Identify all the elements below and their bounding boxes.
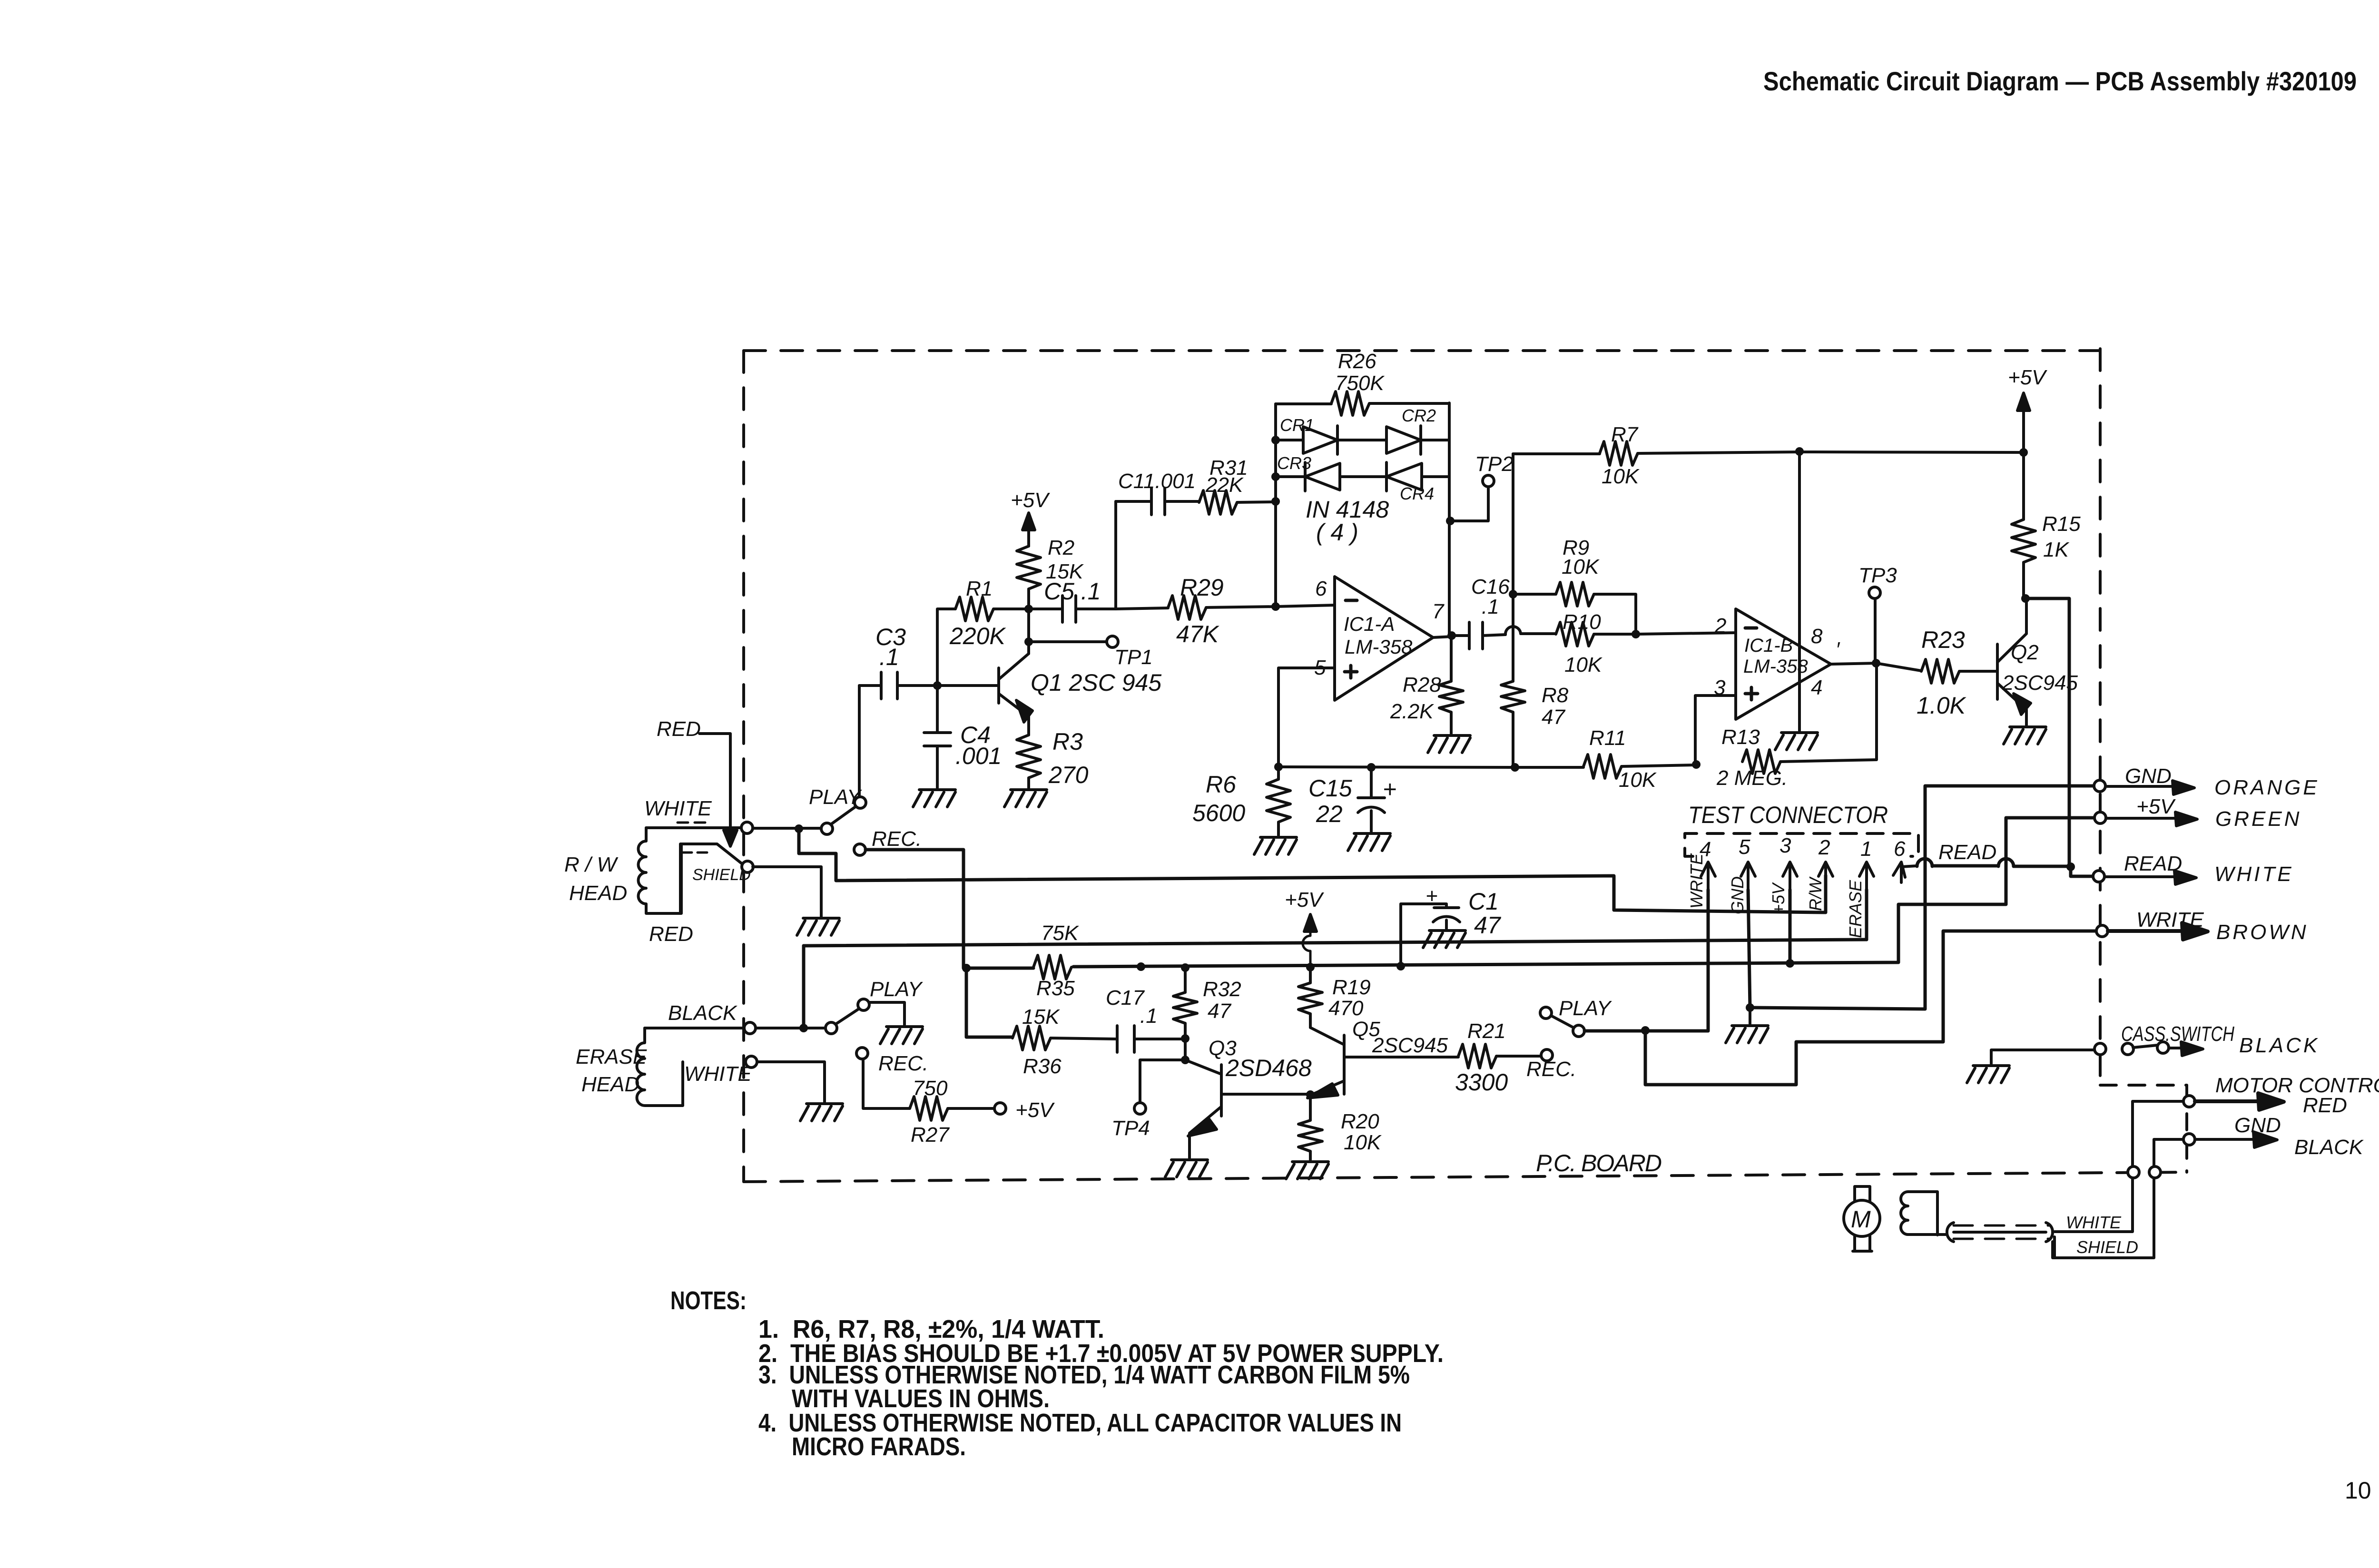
ground R28 — [1428, 735, 1470, 753]
shield label underline — [2053, 1237, 2056, 1258]
svg-text:2SC945: 2SC945 — [1372, 1034, 1448, 1057]
svg-text:NOTES:: NOTES: — [670, 1286, 747, 1315]
svg-text:WHITE: WHITE — [2066, 1213, 2122, 1232]
wire Q1 collector — [1027, 609, 1030, 654]
terminal GND output — [2094, 780, 2105, 792]
pin 4 arrow — [1701, 862, 1715, 890]
wire CR bus right vertical — [1448, 403, 1451, 636]
node R8 bottom — [1511, 763, 1519, 772]
wire TP4 branch — [1140, 1060, 1185, 1103]
svg-text:7: 7 — [1432, 600, 1445, 623]
svg-text:3: 3 — [1779, 834, 1791, 857]
node R31 out — [1271, 497, 1280, 506]
svg-text:10K: 10K — [1344, 1131, 1382, 1154]
terminal WRITE output — [2096, 925, 2108, 937]
node CR1 left — [1271, 436, 1280, 444]
svg-text:TP3: TP3 — [1858, 564, 1897, 587]
wire hop over R8 branch — [1505, 627, 1521, 635]
svg-text:47: 47 — [1208, 1000, 1231, 1023]
svg-text:R32: R32 — [1203, 978, 1241, 1001]
terminal READ output — [2093, 871, 2104, 882]
svg-text:Schematic Circuit Diagram — PC: Schematic Circuit Diagram — PCB Assembly… — [1763, 66, 2357, 96]
wire WRITE stepped to output — [1645, 931, 2095, 1085]
wire pin5 — [1278, 668, 1335, 767]
svg-text:LM-358: LM-358 — [1743, 656, 1808, 677]
wire Q2 collector — [2025, 598, 2028, 634]
motor cable shield dashes — [1954, 1225, 2049, 1239]
node pin6 — [1271, 602, 1280, 611]
wire erase REC to R27 — [863, 1059, 910, 1108]
node R2/C5 — [1024, 605, 1033, 613]
wire R7 top — [1513, 452, 1600, 455]
svg-text:2.2K: 2.2K — [1390, 700, 1434, 723]
resistor R2 15K — [1017, 546, 1041, 589]
svg-text:R8: R8 — [1542, 684, 1569, 707]
wire C5 to C11 branch — [1114, 501, 1117, 609]
svg-text:47: 47 — [1542, 706, 1565, 729]
svg-text:75K: 75K — [1041, 921, 1079, 945]
wire Q1 emitter to R3 — [1027, 716, 1030, 735]
ground test connector — [1749, 1008, 1751, 1024]
svg-text:47: 47 — [1474, 912, 1502, 939]
svg-text:2: 2 — [1714, 614, 1726, 637]
svg-text:+5V: +5V — [1285, 888, 1324, 911]
svg-text:LM-358: LM-358 — [1345, 636, 1413, 658]
ground C15 — [1348, 833, 1390, 851]
ground erase play — [880, 1027, 923, 1044]
svg-text:ERASE: ERASE — [576, 1045, 647, 1068]
shield symbol — [680, 844, 742, 913]
P.C. BOARD dashed border notch horizontal — [2100, 1084, 2187, 1087]
node pin7 — [1447, 631, 1456, 640]
svg-text:RED: RED — [649, 922, 693, 946]
svg-text:2SD468: 2SD468 — [1225, 1055, 1312, 1081]
svg-text:2SC945: 2SC945 — [2002, 671, 2078, 695]
svg-text:+5V: +5V — [2008, 366, 2047, 389]
transistor Q3 2SD468 — [1185, 1060, 1310, 1158]
svg-text:R35: R35 — [1036, 977, 1075, 1000]
svg-text:1: 1 — [1860, 837, 1872, 861]
svg-text:PLAY: PLAY — [870, 978, 923, 1001]
node R35 right — [1137, 962, 1145, 971]
wire pin1 ERASE vertical — [1865, 890, 1868, 940]
node R6 top — [1274, 763, 1283, 771]
svg-text:10K: 10K — [1602, 465, 1640, 488]
wire black lead — [645, 1027, 744, 1029]
motor inductor coil — [1901, 1192, 1908, 1235]
capacitor C4 .001 — [924, 686, 951, 788]
switch PLAY (R/W head) — [821, 823, 833, 834]
svg-text:10K: 10K — [1562, 555, 1600, 578]
svg-text:BROWN: BROWN — [2216, 921, 2309, 944]
wire white erase to ground — [757, 1062, 825, 1103]
svg-text:Q1 2SC 945: Q1 2SC 945 — [1031, 669, 1161, 696]
svg-text:TP4: TP4 — [1111, 1117, 1150, 1140]
test point TP1 — [1107, 636, 1118, 647]
P.C. BOARD dashed border bottom edge — [744, 1172, 2187, 1182]
wire Q2 emitter to ground — [2025, 710, 2028, 725]
wire R/W common to R/W test line — [799, 829, 1826, 912]
svg-text:3300: 3300 — [1455, 1069, 1508, 1096]
op-amp U1B IC1-B LM-358 — [1736, 609, 1831, 719]
terminal +5V R27 — [994, 1103, 1006, 1114]
switch PLAY (erase head) — [826, 1022, 837, 1034]
svg-text:R21: R21 — [1467, 1019, 1506, 1043]
svg-text:C11.001: C11.001 — [1118, 470, 1196, 493]
svg-text:ERASE: ERASE — [1846, 880, 1865, 938]
svg-text:.001: .001 — [955, 743, 1002, 769]
wire pin6 — [1276, 605, 1335, 607]
wire base node to Q1 — [937, 684, 999, 687]
wire pin3 — [1695, 696, 1736, 764]
svg-text:R/W: R/W — [1806, 876, 1825, 911]
motor cable white wire — [1954, 1231, 2046, 1234]
svg-text:REC.: REC. — [1526, 1058, 1576, 1081]
svg-text:RED: RED — [657, 717, 701, 741]
svg-text:1.0K: 1.0K — [1917, 692, 1967, 719]
svg-text:TP1: TP1 — [1114, 646, 1153, 669]
node pin3 +5V junction — [1786, 959, 1794, 968]
svg-text:MICRO FARADS.: MICRO FARADS. — [792, 1432, 966, 1461]
switch REC contact (R/W head) — [854, 844, 865, 855]
wire erase play to ground — [869, 1002, 904, 1026]
terminal black erase — [744, 1022, 756, 1034]
svg-text:10K: 10K — [1619, 768, 1657, 792]
switch REC contact (erase) — [856, 1048, 868, 1059]
svg-text:C17: C17 — [1106, 986, 1145, 1009]
node IC1B power — [1795, 447, 1804, 456]
svg-text:.1: .1 — [1140, 1004, 1158, 1028]
svg-text:6: 6 — [1315, 577, 1327, 600]
svg-text:750K: 750K — [1335, 372, 1385, 395]
svg-text:C15: C15 — [1308, 775, 1352, 802]
node R9 left — [1509, 590, 1517, 598]
wire motor white to motor control — [2055, 1101, 2183, 1232]
ground cass switch — [1991, 1050, 2094, 1064]
svg-text:220K: 220K — [949, 623, 1006, 649]
wire motor shield to gnd black — [2053, 1139, 2183, 1258]
svg-text:+5V: +5V — [1015, 1098, 1055, 1122]
+5V supply arrow Q1 — [1027, 519, 1030, 609]
svg-text:5: 5 — [1739, 835, 1750, 859]
svg-text:R11: R11 — [1589, 726, 1626, 750]
svg-text:P.C. BOARD: P.C. BOARD — [1536, 1150, 1662, 1176]
svg-text:+5V: +5V — [2136, 795, 2176, 818]
ground shield — [797, 918, 839, 935]
R/W head coil — [639, 828, 682, 913]
wire pin5 GND vertical — [1748, 890, 1750, 1008]
motor M — [1844, 1200, 1880, 1236]
ground R6 — [1254, 837, 1297, 854]
test connector dashed box — [1685, 833, 1918, 856]
svg-text:470: 470 — [1328, 997, 1364, 1020]
wire REC to R35 node — [865, 850, 963, 968]
wire coil top — [1908, 1192, 1937, 1235]
svg-text:PLAY: PLAY — [1559, 997, 1612, 1020]
P.C. BOARD dashed border left edge — [742, 351, 745, 1182]
svg-text:10K: 10K — [1564, 653, 1602, 676]
terminal shield — [742, 861, 753, 872]
node C15 top — [1367, 763, 1376, 772]
resistor R3 270 — [1017, 735, 1041, 778]
+5V distribution line — [966, 818, 2094, 968]
P.C. BOARD dashed border top edge — [744, 349, 2100, 352]
ground Q2 — [2004, 727, 2046, 744]
ground C4 — [913, 790, 955, 807]
svg-text:CASS.SWITCH: CASS.SWITCH — [2121, 1022, 2234, 1046]
P.C. BOARD dashed border notch vertical — [2185, 1085, 2188, 1172]
wire collector node to READ vertical — [2025, 598, 2069, 867]
svg-text:750: 750 — [913, 1077, 948, 1100]
svg-text:R28: R28 — [1403, 673, 1441, 696]
transistor Q1 2SC945 — [999, 654, 1029, 716]
svg-text:R / W: R / W — [564, 853, 618, 876]
pin 6 arrow — [1893, 862, 1905, 882]
wire pin7 to C16 — [1433, 637, 1452, 637]
svg-text:TP2: TP2 — [1475, 452, 1514, 476]
wire IC1B output — [1831, 663, 1921, 671]
node R19 top — [1306, 963, 1315, 971]
wire TP1 — [1029, 640, 1107, 643]
node R15 bottom — [2021, 594, 2030, 603]
node GND pin5 — [1746, 1003, 1754, 1012]
svg-text:22: 22 — [1316, 801, 1343, 827]
op-amp U1A IC1-A LM-358 — [1335, 577, 1433, 700]
ground Q3 emitter — [1165, 1160, 1208, 1177]
pin 2 arrow — [1819, 862, 1833, 890]
node IC1B out — [1872, 659, 1880, 667]
wire coil bottom to cable — [1908, 1233, 1947, 1236]
svg-text:GND: GND — [1728, 876, 1747, 914]
svg-text:10: 10 — [2345, 1477, 2371, 1504]
terminal white R/W — [741, 822, 753, 833]
test point TP2 — [1483, 475, 1494, 487]
svg-text:GND: GND — [2125, 764, 2172, 788]
wire write switch common — [1584, 1029, 1708, 1033]
svg-text:SHIELD: SHIELD — [2076, 1237, 2138, 1257]
svg-text:R15: R15 — [2042, 512, 2081, 536]
svg-text:GREEN: GREEN — [2215, 807, 2301, 831]
svg-text:4: 4 — [1811, 676, 1822, 699]
svg-text:BLACK: BLACK — [2294, 1136, 2364, 1159]
svg-text:CR1: CR1 — [1280, 415, 1314, 435]
transistor Q5 2SC945 — [1310, 1028, 1458, 1120]
pin 1 arrow — [1859, 862, 1874, 890]
svg-text:+5V: +5V — [1011, 489, 1050, 512]
wire play to C3 — [858, 686, 861, 797]
ground C1 — [1423, 931, 1465, 948]
svg-text:BLACK: BLACK — [2239, 1034, 2320, 1057]
svg-text:2 MEG.: 2 MEG. — [1716, 766, 1788, 790]
wire R7 left vertical — [1512, 454, 1514, 681]
svg-text:BLACK: BLACK — [668, 1001, 737, 1025]
wire READ to output — [2071, 867, 2093, 876]
wire pin4 WRITE vertical — [1707, 890, 1710, 1030]
svg-text:PLAY: PLAY — [809, 785, 862, 809]
wire CR bus left vertical — [1274, 404, 1277, 607]
svg-text:WHITE: WHITE — [684, 1062, 752, 1086]
svg-text:R19: R19 — [1332, 976, 1371, 999]
test point TP4 — [1134, 1103, 1146, 1114]
erase head coil — [637, 1028, 683, 1106]
svg-text:5600: 5600 — [1192, 800, 1245, 826]
node CR3 left — [1271, 472, 1280, 481]
switch cassette — [2122, 1043, 2133, 1055]
wire base node up to R1 — [937, 609, 955, 686]
75K ERASE line — [804, 940, 1867, 946]
svg-text:R3: R3 — [1052, 728, 1083, 755]
svg-text:6: 6 — [1894, 837, 1906, 861]
svg-text:R27: R27 — [911, 1123, 950, 1147]
svg-text:TEST CONNECTOR: TEST CONNECTOR — [1688, 802, 1888, 828]
node Q3 base — [1181, 1056, 1189, 1064]
wire READ line with hops — [1932, 866, 2071, 866]
wire C5 to R29 — [1116, 608, 1168, 609]
svg-text:1K: 1K — [2043, 538, 2069, 561]
node rw-common — [795, 824, 803, 833]
wire IC1B power/gnd vertical — [1798, 451, 1801, 731]
node WRITE — [1641, 1026, 1650, 1035]
terminal MOTOR CONTROL output — [2183, 1096, 2195, 1107]
wire GND line — [1750, 786, 2094, 1009]
node +5V R15 — [2019, 448, 2028, 457]
switch arm write — [1551, 1016, 1573, 1028]
wire erase common up to 75K line — [802, 946, 806, 1028]
terminal CASS.SWITCH output — [2094, 1043, 2106, 1055]
wire white to play switch — [753, 827, 821, 830]
node TP2 branch — [1446, 517, 1455, 525]
svg-text:( 4 ): ( 4 ) — [1316, 519, 1358, 546]
wire white lead R/W head — [646, 826, 741, 829]
svg-text:R26: R26 — [1338, 350, 1376, 373]
wire READ hop over GND — [1917, 859, 1932, 866]
wire pin6 READ — [1901, 866, 1917, 882]
node C17/R32 — [1181, 1034, 1189, 1043]
ground R20 — [1286, 1162, 1328, 1179]
pin 3 arrow — [1783, 862, 1797, 890]
wire R26 top — [1276, 402, 1331, 405]
svg-text:+5V: +5V — [1769, 882, 1788, 914]
svg-text:R36: R36 — [1023, 1055, 1062, 1078]
svg-text:WHITE: WHITE — [2214, 862, 2294, 886]
+5V supply arrow top right — [2022, 401, 2025, 452]
wire pin3 +5V vertical — [1789, 890, 1792, 964]
terminal white erase — [746, 1056, 757, 1068]
svg-text:C5 .1: C5 .1 — [1044, 578, 1101, 605]
ground IC1-B pin4 — [1775, 733, 1818, 750]
svg-text:Q2: Q2 — [2011, 641, 2039, 664]
svg-text:R2: R2 — [1048, 536, 1074, 559]
svg-text:ORANGE: ORANGE — [2214, 776, 2320, 799]
ground R3 — [1004, 790, 1047, 807]
svg-text:.1: .1 — [1482, 595, 1499, 618]
transistor Q2 2SC945 — [1997, 634, 2026, 710]
svg-text:R20: R20 — [1341, 1110, 1379, 1133]
svg-text:R6: R6 — [1206, 771, 1236, 798]
motor cable bracket left — [1947, 1223, 1954, 1242]
node R32 top — [1181, 963, 1189, 972]
wire READ hop over +5V — [1998, 859, 2014, 866]
wire black to play switch 2 — [756, 1027, 826, 1029]
svg-text:270: 270 — [1048, 762, 1089, 788]
wire R36 branch vertical — [966, 968, 1013, 1037]
node Q3 collector / Q5 emitter — [1306, 1090, 1315, 1099]
terminal GND BLACK output — [2183, 1134, 2195, 1145]
svg-text:RED: RED — [2303, 1094, 2347, 1117]
svg-text:MOTOR CONTROL: MOTOR CONTROL — [2215, 1074, 2379, 1097]
node R11/R13 — [1692, 760, 1701, 769]
terminal gnd black crossing — [2149, 1166, 2161, 1178]
capacitor C1 47 — [1396, 962, 1405, 970]
svg-text:+: + — [1425, 884, 1438, 908]
svg-text:47K: 47K — [1176, 621, 1220, 647]
wire pin2 — [1636, 633, 1736, 634]
node READ junction — [2066, 862, 2075, 871]
wire TP2 — [1450, 487, 1488, 521]
svg-text:R29: R29 — [1180, 574, 1224, 601]
node Q1 base — [933, 681, 942, 690]
wire pin5 bus to R11 — [1278, 767, 1515, 767]
test point TP3 — [1874, 598, 1877, 663]
svg-text:2: 2 — [1818, 836, 1830, 859]
node R35 left — [962, 964, 971, 972]
svg-text:HEAD: HEAD — [569, 882, 627, 905]
svg-text:IC1-B: IC1-B — [1744, 635, 1793, 656]
svg-text:R13: R13 — [1721, 725, 1760, 749]
svg-text:WHITE: WHITE — [644, 797, 712, 820]
node erase-common — [799, 1024, 808, 1032]
terminal motor control crossing — [2128, 1166, 2139, 1178]
svg-text:READ: READ — [1938, 841, 1996, 864]
pin 5 arrow — [1741, 862, 1755, 890]
wire RED arrow to shield — [699, 734, 730, 838]
node TP1 — [1024, 637, 1033, 646]
wire shield to ground — [753, 867, 821, 917]
svg-text:HEAD: HEAD — [581, 1073, 639, 1096]
svg-text:R23: R23 — [1921, 627, 1965, 653]
svg-text:IC1-A: IC1-A — [1344, 613, 1395, 635]
svg-text:.1: .1 — [879, 644, 899, 670]
svg-text:CR2: CR2 — [1402, 406, 1436, 425]
resistor R35 — [1033, 955, 1072, 979]
switch REC contact (record driver) — [1541, 1049, 1553, 1061]
node R10 right — [1632, 630, 1640, 638]
P.C. BOARD dashed border right edge — [2099, 349, 2102, 1085]
svg-text:REC.: REC. — [878, 1052, 928, 1075]
svg-text:M: M — [1851, 1206, 1871, 1233]
svg-text:REC.: REC. — [872, 827, 922, 851]
svg-text:8: 8 — [1811, 625, 1823, 648]
ground white erase — [800, 1104, 843, 1121]
svg-text:WRITE: WRITE — [1687, 853, 1706, 909]
switch PLAY contact (record driver) — [1540, 1007, 1552, 1019]
terminal +5V output — [2094, 812, 2106, 823]
svg-text:C1: C1 — [1468, 888, 1499, 915]
motor cable bracket right — [2046, 1223, 2053, 1242]
